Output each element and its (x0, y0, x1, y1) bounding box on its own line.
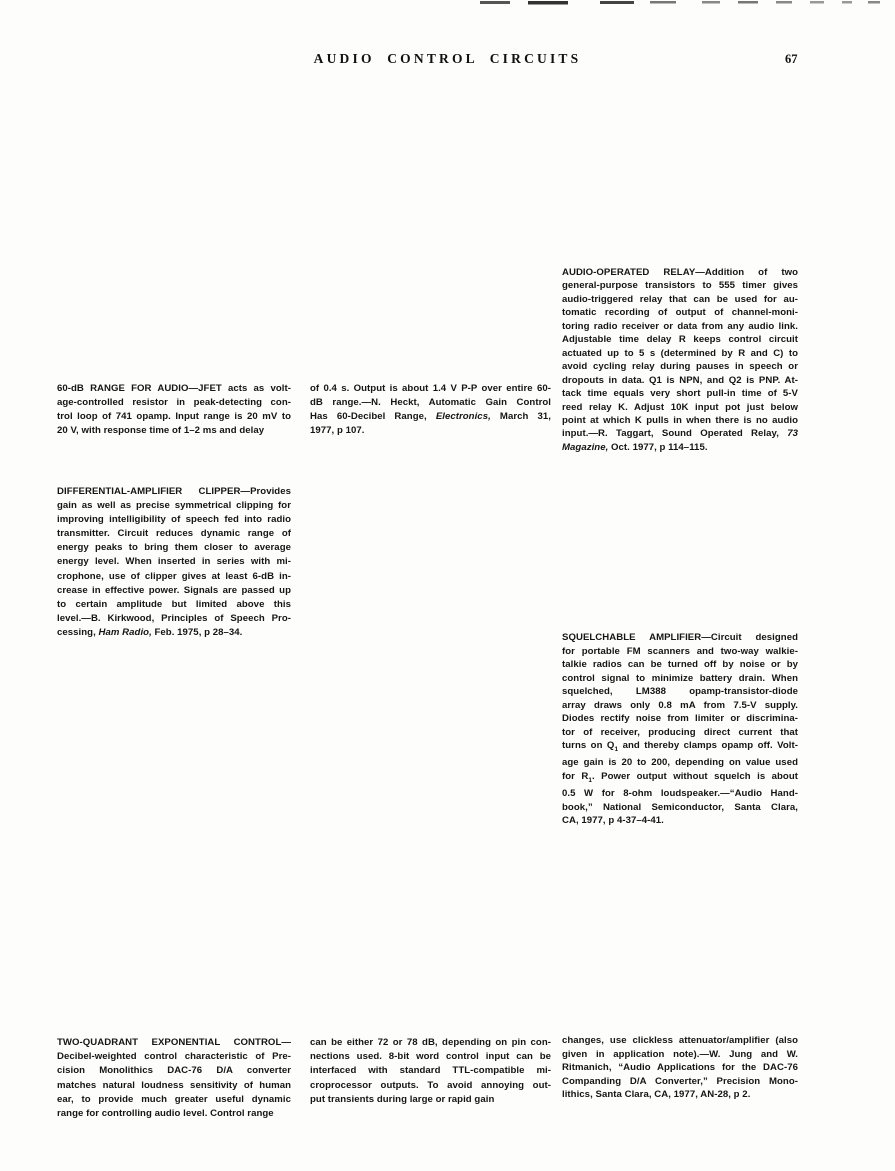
text block: 60-dB RANGE caption col2 (310, 382, 551, 438)
text block: SQUELCHABLE AMPLIFIER col3 (562, 631, 798, 828)
text block: TWO-QUADRANT col1 (57, 1036, 291, 1121)
text block: TWO-QUADRANT col2 (310, 1036, 551, 1107)
page header (0, 51, 895, 67)
text block: DIFFERENTIAL-AMPLIFIER CLIPPER col1 (57, 485, 291, 640)
top edge scan dashes (480, 0, 895, 6)
text block: TWO-QUADRANT col3 (562, 1034, 798, 1102)
text block: 60-dB RANGE caption col1 (57, 382, 291, 438)
text block: AUDIO-OPERATED RELAY col3 (562, 266, 798, 454)
